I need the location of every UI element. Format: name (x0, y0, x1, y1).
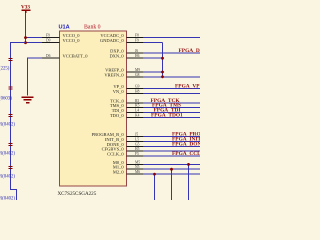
svg-text:M6: M6 (135, 170, 140, 174)
pin F9 (GNDADC_0) right (100, 38, 144, 43)
svg-text:J5: J5 (135, 133, 138, 137)
svg-text:Bank 0: Bank 0 (84, 24, 101, 30)
svg-text:FPGA_TDO1: FPGA_TDO1 (151, 112, 183, 118)
svg-text:R(0402): R(0402) (0, 123, 15, 128)
svg-text:R(0402): R(0402) (0, 152, 15, 157)
svg-text:XC7S25CSGA225: XC7S25CSGA225 (58, 191, 97, 197)
wire VREFP_0 net (143, 71, 163, 73)
wire TMS_0 net (143, 107, 200, 109)
pin F8 (VCCADC_0) right (100, 33, 144, 38)
junction VREFN (161, 75, 164, 78)
svg-text:TDO_0: TDO_0 (110, 113, 124, 118)
svg-text:F9: F9 (46, 34, 50, 38)
svg-text:G8: G8 (135, 73, 140, 77)
pin G9 (VP_0) right (113, 84, 144, 89)
junction DXN (161, 57, 164, 60)
svg-text:H8: H8 (135, 89, 140, 93)
svg-text:VREFN_0: VREFN_0 (104, 72, 124, 77)
pin M5 (M0_0) right (113, 160, 144, 165)
junction on VCCO_0 pin D9 (24, 41, 27, 44)
svg-text:K5: K5 (135, 104, 140, 108)
capacitor C6 (0, 197, 15, 202)
svg-text:H6: H6 (135, 54, 140, 58)
wire TDO_0 net (143, 116, 200, 118)
ground (22, 97, 34, 103)
pin D9 (VCCO_0) left (42, 38, 80, 43)
wire VCCBATT_0 to ground (28, 58, 44, 95)
wire CFGBVS_0 net (143, 150, 200, 152)
capacitor C5 (0, 166, 15, 179)
pin K4 (TDO_0) right (110, 113, 144, 118)
pin H8 (VN_0) right (113, 89, 144, 94)
svg-text:VCCBATT_0: VCCBATT_0 (63, 54, 89, 59)
svg-text:F5: F5 (135, 152, 139, 156)
pin K5 (TMS_0) right (110, 103, 144, 108)
wire VCCO pin 1 (26, 37, 44, 39)
pin D6 (VCCBATT_0) left (42, 54, 88, 59)
pin F5 (CCLK_0) right (107, 152, 144, 157)
junction M0 (187, 163, 190, 166)
wire DXP_0 net (143, 52, 200, 54)
pin F9 (VCCO_0) left (42, 33, 80, 38)
svg-text:F8: F8 (135, 34, 139, 38)
svg-text:FPGA_CCLK: FPGA_CCLK (172, 151, 200, 157)
pin G5 (DONE_0) right (107, 142, 144, 147)
wire VREFN_0 net (143, 76, 200, 78)
svg-text:FPGA_DXP: FPGA_DXP (179, 48, 201, 54)
svg-text:U1A: U1A (59, 24, 70, 30)
svg-text:GNDADC_0: GNDADC_0 (100, 38, 125, 43)
pin R5 (TCK_0) right (110, 98, 144, 103)
wire TDI_0 net (143, 112, 200, 114)
pin J6 (DXP_0) right (110, 49, 144, 54)
wire DONE_0 net (143, 145, 200, 147)
wire INIT_B_0 net (143, 141, 200, 143)
wire VN_0 net (143, 92, 200, 94)
svg-text:FPGA_VP: FPGA_VP (175, 84, 200, 90)
svg-text:R5: R5 (135, 99, 139, 103)
pin L4 (TDI_0) right (112, 108, 144, 113)
IC U1A XC7S25CSGA225 body (60, 31, 127, 186)
svg-text:K4: K4 (135, 113, 140, 117)
capacitor C4 (0, 143, 15, 156)
svg-text:F9: F9 (135, 39, 139, 43)
wire DXN_0 net (143, 57, 163, 59)
wire M0_0 net (143, 163, 200, 165)
capacitor C3 (0, 114, 15, 127)
pin M9 (VREFP_0) right (105, 68, 144, 73)
pin M6 (M2_0) right (113, 170, 144, 175)
svg-text:M9: M9 (135, 68, 140, 72)
wire V33 vertical (25, 13, 27, 43)
svg-text:D6: D6 (46, 54, 51, 58)
wire GNDADC/DXN/VREFP/VREFN tie vertical (162, 43, 164, 77)
wire GNDADC_0 net (143, 42, 163, 44)
capacitor C1 (0, 58, 13, 71)
junction VREFP (161, 71, 164, 74)
pin H6 (DXN_0) right (109, 54, 144, 59)
svg-text:(0603): (0603) (0, 97, 12, 102)
svg-text:R(0402): R(0402) (0, 197, 15, 201)
junction M2 (153, 173, 156, 176)
wire VCCADC_0 net (143, 37, 200, 39)
svg-text:M2_0: M2_0 (113, 170, 125, 175)
power symbol V33 (21, 5, 30, 14)
wire CCLK_0 net (143, 155, 200, 157)
svg-text:G5: G5 (135, 142, 140, 146)
pin H5 (CFGBVS_0) right (102, 147, 144, 152)
wire M0 mode-pin drop (188, 164, 190, 200)
svg-text:M5: M5 (135, 160, 140, 164)
svg-text:G9: G9 (135, 85, 140, 89)
svg-text:VN_0: VN_0 (113, 89, 125, 94)
pin N5 (M1_0) right (113, 165, 144, 170)
svg-text:D9: D9 (46, 39, 51, 43)
svg-text:R(0402): R(0402) (0, 175, 15, 180)
wire VCCO pin 2 (26, 42, 44, 44)
wire VP_0 net (143, 88, 200, 90)
wire M2_0 net (143, 173, 200, 175)
svg-text:L5: L5 (135, 138, 139, 142)
wire M1_0 net (143, 168, 200, 170)
svg-text:(225): (225) (0, 67, 10, 72)
svg-text:H5: H5 (135, 147, 140, 151)
svg-text:CCLK_0: CCLK_0 (107, 152, 124, 157)
pin G8 (VREFN_0) right (104, 72, 144, 77)
junction M1 (170, 168, 173, 171)
capacitor C2 (0, 87, 13, 102)
svg-text:L4: L4 (135, 109, 139, 113)
pin L5 (INIT_B_0) right (105, 137, 144, 142)
svg-text:VCCO_0: VCCO_0 (63, 38, 81, 43)
svg-text:N5: N5 (135, 165, 140, 169)
wire V33 rail to decoupling column (11, 43, 26, 200)
pin J5 (PROGRAM_B_0) right (92, 132, 144, 137)
svg-text:J6: J6 (135, 49, 138, 53)
svg-text:FPGA_DONE: FPGA_DONE (172, 141, 200, 147)
wire PROGRAM_B_0 net (143, 136, 200, 138)
svg-text:DXN_0: DXN_0 (109, 54, 124, 59)
junction on VCCO_0 pin F9 (24, 36, 27, 39)
wire M2 mode-pin drop (154, 174, 156, 200)
wire TCK_0 net (143, 102, 200, 104)
wire M1 mode-pin drop (171, 169, 173, 200)
